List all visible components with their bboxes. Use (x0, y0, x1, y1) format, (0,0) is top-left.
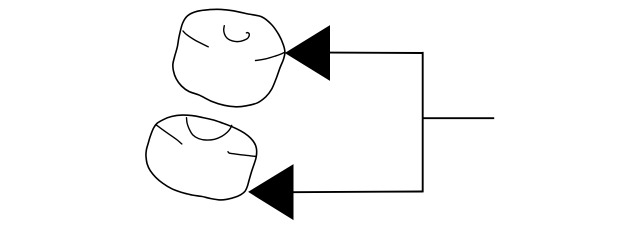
leader arrowhead to cushion 1 (285, 25, 330, 81)
cushion 1 left rim line (183, 31, 208, 47)
leader line (bottom) (293, 191, 423, 194)
cushion 2 top recess notch (187, 118, 232, 140)
leader bracket vertical (422, 52, 424, 193)
leader arrowhead to cushion 2 (248, 164, 293, 220)
leader line (top) (329, 52, 423, 54)
cushion 2 left rim line (156, 125, 182, 144)
cushion 1 top recess notch (224, 26, 250, 42)
cushion 2 right rim line (228, 152, 256, 157)
cushion 1 right rim line (256, 53, 285, 61)
cushion 2 (lower) outline (146, 115, 257, 200)
cushion 1 (upper) outline (173, 9, 285, 107)
callout stem line (423, 117, 495, 119)
